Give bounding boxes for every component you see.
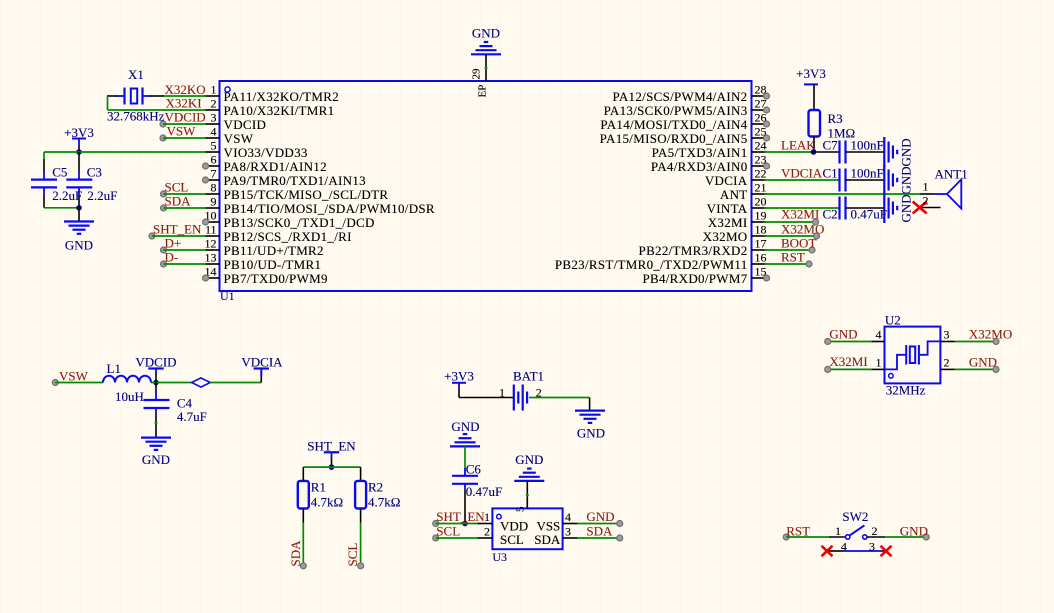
- svg-text:SCL: SCL: [436, 524, 460, 539]
- svg-text:PB13/SCK0_/TXD1_/DCD: PB13/SCK0_/TXD1_/DCD: [224, 215, 375, 230]
- svg-text:GND: GND: [586, 509, 614, 524]
- svg-text:VIO33/VDD33: VIO33/VDD33: [224, 145, 308, 160]
- svg-text:X32MO: X32MO: [703, 229, 748, 244]
- svg-text:LEAK: LEAK: [781, 138, 816, 153]
- svg-text:2: 2: [923, 194, 929, 208]
- svg-text:SDA: SDA: [586, 523, 613, 538]
- svg-text:C6: C6: [466, 462, 482, 477]
- svg-text:PA11/X32KO/TMR2: PA11/X32KO/TMR2: [224, 89, 340, 104]
- svg-text:22: 22: [755, 167, 767, 181]
- svg-text:U1: U1: [220, 289, 235, 303]
- svg-text:VINTA: VINTA: [707, 201, 748, 216]
- svg-text:7: 7: [211, 167, 217, 181]
- svg-text:BAT1: BAT1: [513, 368, 544, 383]
- svg-text:EP: EP: [477, 85, 489, 98]
- svg-text:D+: D+: [165, 236, 182, 251]
- svg-text:L1: L1: [107, 361, 121, 376]
- svg-text:2: 2: [484, 525, 490, 539]
- svg-text:12: 12: [205, 237, 217, 251]
- svg-text:VDCID: VDCID: [165, 110, 206, 125]
- svg-text:PA10/X32KI/TMR1: PA10/X32KI/TMR1: [224, 103, 335, 118]
- svg-text:1: 1: [499, 386, 505, 400]
- svg-text:C2: C2: [823, 207, 838, 222]
- svg-text:8: 8: [211, 181, 217, 195]
- svg-text:ANT: ANT: [720, 187, 748, 202]
- svg-text:11: 11: [205, 223, 217, 237]
- svg-text:2: 2: [211, 97, 217, 111]
- svg-text:VDCIA: VDCIA: [705, 173, 748, 188]
- svg-text:PA5/TXD3/AIN1: PA5/TXD3/AIN1: [652, 145, 748, 160]
- svg-text:2: 2: [944, 355, 950, 369]
- svg-text:1: 1: [484, 510, 490, 524]
- svg-text:GND: GND: [899, 194, 914, 222]
- svg-text:C3: C3: [87, 165, 102, 180]
- svg-text:1: 1: [923, 180, 929, 194]
- svg-text:C1: C1: [823, 165, 838, 180]
- svg-text:3: 3: [211, 111, 217, 125]
- svg-text:0.47uF: 0.47uF: [851, 207, 887, 222]
- svg-text:2.2uF: 2.2uF: [87, 188, 117, 203]
- svg-text:+3V3: +3V3: [796, 66, 826, 81]
- svg-text:VDCIA: VDCIA: [781, 165, 823, 180]
- svg-text:SCL: SCL: [500, 532, 524, 547]
- svg-text:X32MI: X32MI: [781, 207, 819, 222]
- svg-text:4.7kΩ: 4.7kΩ: [311, 495, 343, 510]
- svg-text:4: 4: [876, 328, 882, 342]
- svg-text:PA15/MISO/RXD0_/AIN5: PA15/MISO/RXD0_/AIN5: [600, 131, 748, 146]
- svg-text:GND: GND: [65, 238, 93, 253]
- svg-text:SHT_EN: SHT_EN: [153, 222, 202, 237]
- svg-text:VSW: VSW: [59, 368, 89, 383]
- svg-text:PA13/SCK0/PWM5/AIN3: PA13/SCK0/PWM5/AIN3: [604, 103, 748, 118]
- svg-text:16: 16: [755, 251, 767, 265]
- svg-text:GND: GND: [900, 523, 928, 538]
- svg-text:+3V3: +3V3: [444, 368, 474, 383]
- svg-text:2.2uF: 2.2uF: [52, 188, 82, 203]
- svg-text:PA12/SCS/PWM4/AIN2: PA12/SCS/PWM4/AIN2: [613, 89, 748, 104]
- svg-text:X32MO: X32MO: [781, 222, 824, 237]
- svg-text:GND: GND: [969, 355, 997, 370]
- svg-text:10uH: 10uH: [115, 389, 144, 404]
- svg-text:SCL: SCL: [345, 543, 360, 567]
- svg-text:SW2: SW2: [842, 509, 868, 524]
- svg-text:4.7kΩ: 4.7kΩ: [368, 495, 400, 510]
- svg-text:4: 4: [565, 510, 571, 524]
- svg-text:GND: GND: [899, 138, 914, 166]
- svg-text:1: 1: [876, 355, 882, 369]
- svg-text:19: 19: [755, 209, 767, 223]
- svg-text:PA14/MOSI/TXD0_/AIN4: PA14/MOSI/TXD0_/AIN4: [600, 117, 747, 132]
- svg-text:PB15/TCK/MISO_/SCL/DTR: PB15/TCK/MISO_/SCL/DTR: [224, 187, 389, 202]
- svg-text:13: 13: [205, 251, 217, 265]
- svg-text:U3: U3: [492, 550, 507, 564]
- svg-text:PB7/TXD0/PWM9: PB7/TXD0/PWM9: [224, 271, 328, 286]
- svg-text:VSW: VSW: [224, 131, 254, 146]
- svg-text:32.768kHz: 32.768kHz: [107, 109, 165, 124]
- svg-text:1: 1: [211, 83, 217, 97]
- svg-text:X32MI: X32MI: [708, 215, 748, 230]
- svg-text:5: 5: [515, 506, 527, 512]
- svg-text:R1: R1: [311, 480, 326, 495]
- svg-text:9: 9: [211, 195, 217, 209]
- svg-text:RST: RST: [781, 250, 805, 265]
- svg-text:29: 29: [471, 68, 483, 80]
- svg-text:RST: RST: [786, 523, 810, 538]
- svg-text:R2: R2: [368, 480, 383, 495]
- svg-text:R3: R3: [828, 111, 843, 126]
- svg-text:PA8/RXD1/AIN12: PA8/RXD1/AIN12: [224, 159, 327, 174]
- svg-text:SCL: SCL: [165, 180, 189, 195]
- svg-text:100nF: 100nF: [851, 138, 884, 153]
- svg-text:SHT_EN: SHT_EN: [307, 438, 356, 453]
- svg-text:17: 17: [755, 237, 767, 251]
- svg-text:PB23/RST/TMR0_/TXD2/PWM11: PB23/RST/TMR0_/TXD2/PWM11: [555, 257, 748, 272]
- svg-text:D-: D-: [165, 250, 179, 265]
- svg-text:PA4/RXD3/AIN0: PA4/RXD3/AIN0: [651, 159, 748, 174]
- svg-text:PB4/RXD0/PWM7: PB4/RXD0/PWM7: [642, 271, 747, 286]
- svg-text:0.47uF: 0.47uF: [466, 484, 502, 499]
- svg-text:3: 3: [565, 525, 571, 539]
- svg-text:GND: GND: [451, 419, 479, 434]
- svg-text:SDA: SDA: [288, 540, 303, 567]
- svg-text:X32MO: X32MO: [969, 327, 1012, 342]
- svg-text:C7: C7: [823, 138, 839, 153]
- svg-text:VSW: VSW: [167, 123, 197, 138]
- svg-text:GND: GND: [899, 166, 914, 194]
- svg-text:VDCIA: VDCIA: [241, 355, 283, 370]
- svg-text:4.7uF: 4.7uF: [177, 409, 207, 424]
- svg-text:C5: C5: [52, 165, 67, 180]
- svg-text:32MHz: 32MHz: [886, 382, 926, 397]
- svg-text:PB14/TIO/MOSI_/SDA/PWM10/DSR: PB14/TIO/MOSI_/SDA/PWM10/DSR: [224, 201, 435, 216]
- svg-text:5: 5: [211, 139, 217, 153]
- svg-text:SDA: SDA: [534, 532, 561, 547]
- svg-text:18: 18: [755, 223, 767, 237]
- svg-text:3: 3: [944, 328, 950, 342]
- svg-text:PB12/SCS_/RXD1_/RI: PB12/SCS_/RXD1_/RI: [224, 229, 352, 244]
- svg-text:21: 21: [755, 181, 767, 195]
- svg-text:PB10/UD-/TMR1: PB10/UD-/TMR1: [224, 257, 322, 272]
- svg-text:U2: U2: [885, 313, 901, 328]
- svg-text:4: 4: [211, 125, 217, 139]
- svg-text:X32MI: X32MI: [829, 354, 867, 369]
- svg-text:ANT1: ANT1: [935, 166, 968, 181]
- svg-text:GND: GND: [577, 425, 605, 440]
- svg-text:SHT_EN: SHT_EN: [436, 509, 485, 524]
- svg-text:100nF: 100nF: [851, 165, 884, 180]
- svg-text:BOOT: BOOT: [781, 236, 816, 251]
- svg-text:GND: GND: [829, 326, 857, 341]
- svg-text:4: 4: [841, 539, 847, 553]
- svg-text:PB11/UD+/TMR2: PB11/UD+/TMR2: [224, 243, 324, 258]
- svg-text:VDCID: VDCID: [224, 117, 267, 132]
- svg-text:X1: X1: [128, 67, 144, 82]
- svg-text:24: 24: [755, 139, 767, 153]
- svg-text:GND: GND: [142, 452, 170, 467]
- svg-text:2: 2: [872, 524, 878, 538]
- svg-text:1: 1: [835, 524, 841, 538]
- svg-text:GND: GND: [515, 452, 543, 467]
- svg-text:6: 6: [211, 153, 217, 167]
- svg-text:PB22/TMR3/RXD2: PB22/TMR3/RXD2: [639, 243, 748, 258]
- svg-text:SDA: SDA: [165, 194, 192, 209]
- svg-text:20: 20: [755, 195, 767, 209]
- svg-text:GND: GND: [472, 26, 500, 41]
- svg-text:PA9/TMR0/TXD1/AIN13: PA9/TMR0/TXD1/AIN13: [224, 173, 366, 188]
- svg-text:VDCID: VDCID: [135, 355, 176, 370]
- svg-text:X32KI: X32KI: [166, 96, 202, 111]
- svg-text:3: 3: [869, 539, 875, 553]
